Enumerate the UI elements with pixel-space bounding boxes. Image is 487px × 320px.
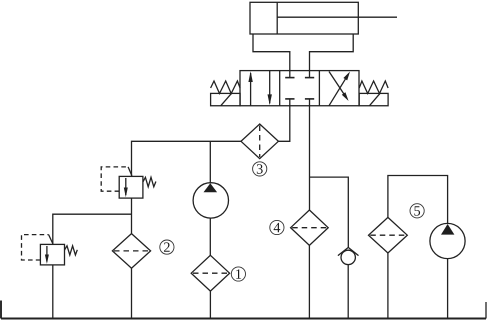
valve left spring bbox=[211, 81, 241, 94]
tank left tick bbox=[0, 301, 2, 319]
wire cylinder rod-end to valve port B bbox=[310, 34, 354, 71]
label 1 bbox=[231, 267, 245, 281]
relief valve R2 body bbox=[40, 244, 64, 265]
wire circulation filter to tank bbox=[387, 253, 389, 319]
filter 6 diamond (circulation) bbox=[369, 217, 408, 253]
wire relief R1 outlet to filter 2 bbox=[131, 198, 133, 234]
valve right solenoid bbox=[359, 93, 388, 105]
label 5 bbox=[410, 204, 424, 218]
filter 2 diamond bbox=[112, 234, 150, 269]
label 4 bbox=[270, 220, 284, 234]
label 3 bbox=[253, 162, 267, 176]
valve left solenoid bbox=[211, 93, 241, 105]
label 2 bbox=[160, 240, 174, 254]
wire circulation loop top bbox=[388, 176, 448, 224]
check valve ball bbox=[341, 250, 355, 264]
valve right solenoid diagonal bbox=[370, 93, 381, 106]
pump P5 circle bbox=[430, 223, 465, 258]
wire filter 2 to tank bbox=[131, 268, 133, 318]
relief valve R1 pilot diagonal bbox=[128, 167, 132, 176]
valve position divider left bbox=[279, 71, 281, 106]
pump P5 triangle bbox=[441, 224, 454, 235]
relief valve R1 spring bbox=[143, 177, 156, 187]
pump P1 triangle bbox=[204, 183, 218, 192]
valve center box blocked port bottom-right bbox=[305, 99, 314, 106]
filter 3 dashed element bbox=[259, 126, 261, 158]
wire cylinder cap-end to valve port A bbox=[253, 34, 290, 71]
valve right box crossed arrow up bbox=[329, 72, 350, 106]
filter 1 diamond bbox=[191, 255, 229, 291]
wire valve port T down to filter 4 bbox=[309, 106, 311, 210]
relief valve R2 arrow bbox=[45, 246, 49, 264]
relief valve R2 spring bbox=[65, 246, 78, 255]
valve center box blocked port bottom-left bbox=[285, 99, 294, 106]
wire relief R2 drain to tank bbox=[52, 265, 54, 319]
pump P1 circle bbox=[193, 183, 228, 218]
filter 4 dashed element bbox=[292, 227, 326, 229]
wire filter 1 to tank bbox=[209, 291, 211, 318]
cylinder rod bbox=[277, 16, 397, 18]
relief valve R2 pilot line dashed bbox=[22, 235, 49, 260]
relief valve R2 pilot diagonal bbox=[49, 235, 53, 244]
check valve seat bbox=[338, 247, 359, 255]
valve left solenoid diagonal bbox=[221, 93, 232, 106]
valve position divider right bbox=[318, 71, 320, 106]
relief valve R1 pilot line dashed bbox=[101, 167, 128, 191]
relief valve R1 body bbox=[119, 176, 143, 198]
filter 3 diamond bbox=[241, 124, 278, 159]
tank line bbox=[1, 318, 486, 320]
wire branch to relief valve R2 bbox=[53, 214, 132, 244]
filter 6 dashed element bbox=[370, 234, 405, 236]
cylinder body bbox=[250, 2, 358, 34]
tank right tick bbox=[485, 302, 487, 319]
wire check valve to tank bbox=[347, 265, 349, 319]
valve right spring bbox=[359, 81, 388, 94]
valve left box down arrow bbox=[268, 71, 272, 106]
wire valve port P down to filter 3 bbox=[278, 106, 289, 142]
wire pump P5 suction bbox=[447, 259, 449, 319]
wire branch to check valve bbox=[310, 177, 349, 247]
valve left box up arrow bbox=[248, 71, 252, 105]
valve right box crossed arrow down bbox=[329, 72, 349, 102]
relief valve R1 arrow bbox=[124, 178, 128, 197]
directional valve body bbox=[240, 71, 359, 106]
valve center box blocked port top-right bbox=[305, 71, 314, 78]
filter 4 diamond bbox=[291, 210, 329, 245]
cylinder piston bbox=[276, 2, 278, 34]
filter 2 dashed element bbox=[114, 250, 149, 252]
filter 1 dashed element bbox=[193, 272, 228, 274]
wire pump P1 suction bbox=[209, 218, 211, 255]
wire pump 1 riser bbox=[209, 141, 211, 182]
valve center box blocked port top-left bbox=[285, 71, 294, 78]
wire filter 4 to tank bbox=[308, 245, 310, 318]
wire pressure manifold filter3 to relief valve column bbox=[132, 141, 242, 176]
